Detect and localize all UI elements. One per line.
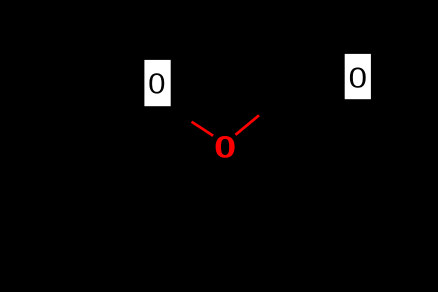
node O5: right carbonyl oxygen label box xyxy=(345,54,371,99)
wire: red bond O3-C4 (right ether bond) xyxy=(236,115,260,135)
node O1: left carbonyl oxygen label box xyxy=(144,60,170,106)
node O3: ether oxygen label (red) xyxy=(216,137,234,157)
wire: red bond C2-O3 (left ether bond) xyxy=(192,122,214,136)
